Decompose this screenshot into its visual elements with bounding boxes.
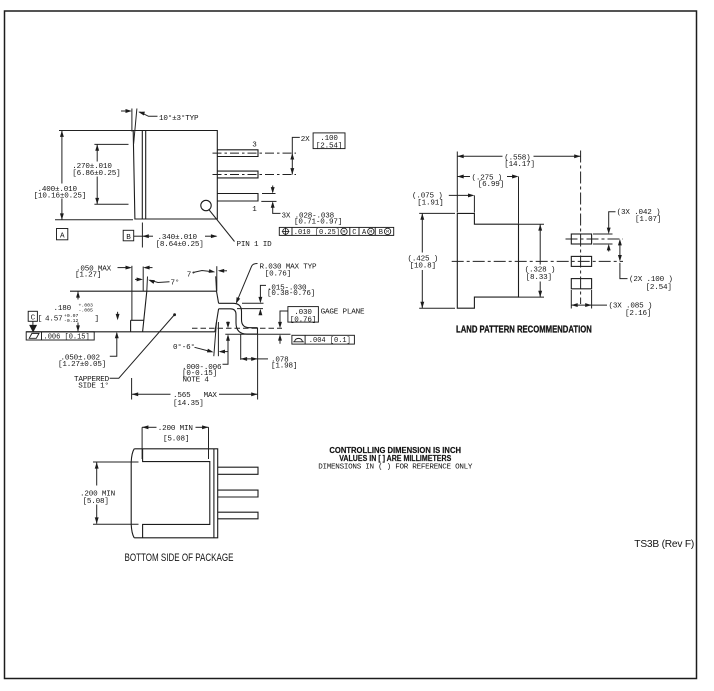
svg-text:TS3B (Rev F): TS3B (Rev F)	[634, 539, 694, 550]
svg-text:BOTTOM SIDE OF PACKAGE: BOTTOM SIDE OF PACKAGE	[125, 552, 234, 564]
svg-text:GAGE PLANE: GAGE PLANE	[321, 309, 365, 317]
svg-text:0°-6°: 0°-6°	[173, 343, 195, 352]
svg-text:B: B	[379, 229, 383, 237]
svg-text:[0.38-0.76]: [0.38-0.76]	[267, 290, 315, 298]
svg-text:[1.91]: [1.91]	[417, 200, 443, 208]
svg-text:-0.12: -0.12	[64, 318, 79, 324]
svg-text:7°: 7°	[187, 270, 196, 279]
svg-text:C: C	[352, 229, 356, 237]
svg-text:[10.16±0.25]: [10.16±0.25]	[34, 193, 87, 201]
svg-text:[2.54]: [2.54]	[316, 142, 342, 150]
svg-text:[6.99]: [6.99]	[478, 181, 504, 189]
svg-text:.200 MIN: .200 MIN	[158, 425, 193, 433]
svg-text:]: ]	[95, 316, 99, 324]
svg-text:SIDE 1°: SIDE 1°	[78, 381, 109, 390]
svg-text:A: A	[60, 233, 65, 241]
svg-text:.565 MAX: .565 MAX	[173, 392, 217, 400]
svg-text:2X: 2X	[301, 136, 310, 144]
svg-text:7°: 7°	[171, 279, 180, 288]
svg-text:.200 MIN: .200 MIN	[80, 490, 115, 498]
svg-text:4.57: 4.57	[45, 315, 63, 323]
svg-text:[8.64±0.25]: [8.64±0.25]	[156, 241, 204, 249]
svg-text:[14.35]: [14.35]	[173, 400, 204, 408]
svg-text:M: M	[369, 229, 372, 235]
svg-text:[0.76]: [0.76]	[290, 316, 316, 324]
svg-text:VALUES IN [ ] ARE MILLIMETERS: VALUES IN [ ] ARE MILLIMETERS	[339, 453, 451, 463]
svg-text:PIN 1 ID: PIN 1 ID	[237, 241, 273, 249]
svg-text:[1.98]: [1.98]	[271, 363, 297, 371]
svg-text:[: [	[38, 316, 42, 324]
svg-text:[14.17]: [14.17]	[504, 161, 535, 169]
svg-text:.010 [0.25]: .010 [0.25]	[294, 229, 340, 237]
svg-text:DIMENSIONS IN ( ) FOR REFERENC: DIMENSIONS IN ( ) FOR REFERENCE ONLY	[318, 464, 473, 472]
svg-text:.180: .180	[54, 305, 72, 313]
svg-text:[0.71-0.97]: [0.71-0.97]	[294, 219, 342, 227]
svg-text:B: B	[126, 234, 131, 242]
svg-text:10°±3°TYP: 10°±3°TYP	[159, 114, 199, 123]
svg-text:[1.27±0.05]: [1.27±0.05]	[58, 361, 106, 369]
svg-text:[1.07]: [1.07]	[635, 216, 661, 224]
svg-text:[1.27]: [1.27]	[75, 272, 101, 280]
svg-text:[5.08]: [5.08]	[163, 436, 189, 444]
svg-text:LAND PATTERN RECOMMENDATION: LAND PATTERN RECOMMENDATION	[456, 324, 592, 336]
svg-text:.004 [0.1]: .004 [0.1]	[309, 337, 351, 345]
svg-text:[5.08]: [5.08]	[83, 498, 109, 506]
svg-text:.006 [0.15]: .006 [0.15]	[44, 333, 90, 341]
svg-text:[2.54]: [2.54]	[646, 284, 672, 292]
svg-text:[2.16]: [2.16]	[625, 310, 651, 318]
svg-text:NOTE 4: NOTE 4	[183, 377, 210, 385]
svg-text:[0.76]: [0.76]	[265, 270, 291, 278]
svg-text:C: C	[31, 314, 36, 322]
svg-text:M: M	[343, 229, 346, 235]
svg-text:[6.86±0.25]: [6.86±0.25]	[72, 170, 120, 178]
svg-text:3: 3	[252, 141, 257, 149]
svg-text:-.005: -.005	[79, 308, 94, 314]
svg-text:[8.33]: [8.33]	[526, 274, 552, 282]
svg-text:M: M	[386, 229, 389, 235]
svg-text:1: 1	[252, 206, 257, 214]
svg-text:[10.8]: [10.8]	[410, 263, 436, 271]
